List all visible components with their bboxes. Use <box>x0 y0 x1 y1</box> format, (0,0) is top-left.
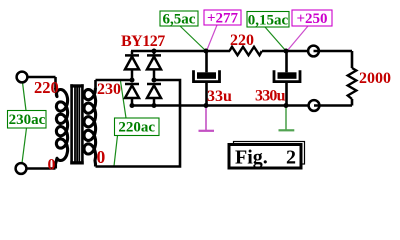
svg-text:BY127: BY127 <box>121 33 165 50</box>
svg-text:6,5ac: 6,5ac <box>163 12 196 28</box>
svg-text:220: 220 <box>230 32 254 49</box>
svg-text:220: 220 <box>34 78 59 97</box>
svg-text:230: 230 <box>97 81 121 98</box>
svg-text:Fig.: Fig. <box>235 147 268 169</box>
svg-text:+250: +250 <box>296 11 327 27</box>
svg-text:33u: 33u <box>207 88 232 105</box>
svg-text:220ac: 220ac <box>118 120 155 136</box>
svg-text:330u: 330u <box>255 88 286 105</box>
svg-text:0,15ac: 0,15ac <box>248 13 289 29</box>
svg-text:0: 0 <box>48 157 56 174</box>
svg-text:2: 2 <box>286 147 296 169</box>
svg-text:2000: 2000 <box>359 70 391 87</box>
svg-text:0: 0 <box>97 147 106 167</box>
svg-text:230ac: 230ac <box>9 112 46 128</box>
svg-text:+277: +277 <box>207 11 239 27</box>
